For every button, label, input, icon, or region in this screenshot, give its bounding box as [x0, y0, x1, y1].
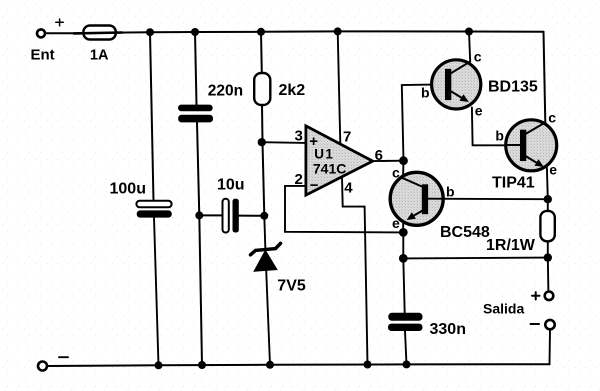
- resistor R1 2k2: [254, 73, 270, 105]
- node junction feedback: [399, 228, 408, 237]
- wire node to zener: [264, 216, 265, 250]
- node junction bottom pin4: [364, 361, 372, 369]
- node junction base/1R: [544, 195, 552, 203]
- capacitor C4 330n: [388, 313, 423, 331]
- wire pin2 feedback: [285, 186, 403, 233]
- minus sign output: [531, 323, 540, 325]
- svg-text:220n: 220n: [208, 83, 243, 100]
- svg-text:741C: 741C: [313, 160, 346, 176]
- node junction pin3 tap: [258, 138, 266, 146]
- transistor Q3 BC548: [390, 172, 443, 225]
- wire BD135 collector up: [469, 32, 470, 62]
- svg-text:2: 2: [295, 171, 303, 188]
- wire pin6 up to BD135 base: [402, 85, 432, 161]
- node junction 1R bottom: [544, 253, 552, 261]
- node junction top rail 100u: [146, 28, 154, 36]
- node junction top rail BD135 c: [465, 28, 473, 36]
- terminal output minus: [545, 320, 554, 329]
- svg-text:b: b: [446, 183, 455, 199]
- node junction bottom zener: [266, 361, 274, 369]
- wire 2k2 to node: [262, 105, 264, 216]
- svg-text:BC548: BC548: [440, 224, 490, 241]
- minus sign input: [59, 356, 68, 358]
- svg-text:4: 4: [344, 180, 353, 197]
- wire 330n to bottom rail: [405, 331, 407, 364]
- svg-text:e: e: [475, 102, 483, 118]
- wire zener to bottom rail: [266, 271, 270, 365]
- svg-text:c: c: [392, 164, 400, 180]
- terminal input minus: [38, 362, 47, 371]
- plus sign output: [532, 292, 540, 299]
- wire 2k2 branch upper: [260, 32, 263, 73]
- wire input to fuse: [45, 32, 77, 34]
- capacitor C3 10u: [223, 199, 239, 233]
- svg-text:3: 3: [295, 128, 303, 145]
- capacitor C1 100u: [136, 201, 171, 218]
- svg-text:b: b: [495, 127, 504, 143]
- zener diode D1 7V5: [251, 243, 281, 271]
- svg-text:10u: 10u: [217, 177, 245, 194]
- wire 1R top lead: [547, 199, 549, 211]
- svg-text:e: e: [549, 161, 557, 177]
- wire pin3: [262, 141, 306, 144]
- svg-text:330n: 330n: [430, 321, 466, 338]
- wire TIP41 collector up: [544, 121, 546, 123]
- node junction top rail 2k2: [257, 28, 265, 36]
- wire 10u left lead: [199, 214, 222, 216]
- op-amp U1 741C: [306, 126, 373, 195]
- wire BD135 emitter to TIP41 base: [472, 107, 506, 145]
- svg-text:Ent: Ent: [31, 47, 55, 64]
- svg-text:1A: 1A: [90, 48, 109, 64]
- svg-text:BD135: BD135: [488, 79, 538, 96]
- svg-text:6: 6: [375, 147, 383, 164]
- svg-text:Salida: Salida: [483, 301, 524, 317]
- svg-text:100u: 100u: [110, 181, 146, 198]
- svg-text:1R/1W: 1R/1W: [486, 237, 536, 254]
- wire output plus lead: [547, 258, 550, 292]
- resistor R2 1R/1W: [540, 211, 554, 241]
- terminal input plus: [37, 29, 45, 37]
- wire 220n branch upper: [195, 32, 197, 105]
- transistor Q1 BD135: [432, 60, 481, 109]
- node junction bottom 330n: [403, 360, 411, 368]
- node junction bottom 220n: [198, 361, 206, 369]
- wire output branch: [403, 257, 548, 260]
- svg-text:e: e: [392, 215, 400, 231]
- wire pin6 output: [373, 160, 404, 162]
- wire top rail: [116, 31, 544, 32]
- node junction bottom 100u: [155, 361, 163, 369]
- wire pin4: [342, 177, 368, 365]
- node junction 10u right: [260, 212, 268, 220]
- svg-text:7: 7: [343, 129, 351, 146]
- wire pin6 down to BC548 c: [402, 161, 405, 178]
- svg-text:TIP41: TIP41: [492, 175, 535, 192]
- node junction top rail pin7: [334, 27, 342, 35]
- svg-text:−: −: [310, 177, 319, 194]
- node junction output branch: [399, 254, 408, 263]
- node junction top rail 220n: [191, 28, 199, 36]
- node junction pin6: [399, 156, 408, 165]
- plus sign input: [56, 19, 64, 26]
- wire 100u branch lower: [154, 218, 159, 366]
- capacitor C2 220n: [178, 105, 213, 123]
- wire 220n branch lower: [197, 122, 202, 365]
- terminal output plus: [545, 292, 554, 301]
- wire 100u branch upper: [150, 32, 154, 201]
- wire BC548 emitter down: [403, 222, 405, 313]
- svg-text:b: b: [421, 84, 430, 100]
- wire bottom rail: [47, 364, 549, 366]
- wire 10u right lead: [239, 215, 264, 217]
- fuse F1 1A: [74, 26, 122, 40]
- wire TIP41 emitter down: [546, 168, 549, 200]
- svg-text:2k2: 2k2: [279, 82, 306, 99]
- wire 1R bottom lead: [547, 241, 549, 257]
- node junction 10u left: [195, 211, 203, 219]
- svg-text:c: c: [474, 49, 482, 65]
- svg-text:c: c: [548, 110, 556, 126]
- wire BC548 base to 1R node: [428, 198, 548, 201]
- svg-text:7V5: 7V5: [277, 278, 306, 295]
- transistor Q2 TIP41: [506, 120, 557, 171]
- wire pin7: [338, 31, 341, 144]
- wire output minus lead: [549, 329, 552, 364]
- wire top rail corner down to TIP41 c: [544, 32, 546, 123]
